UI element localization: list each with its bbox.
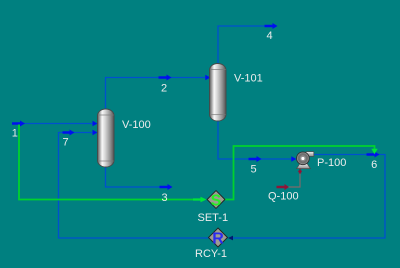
stream 7 inlet arrowhead at V-100 bbox=[93, 130, 98, 136]
svg-text:S: S bbox=[211, 192, 222, 209]
stream 5 bold arrow bbox=[249, 156, 262, 162]
stream 7 bold arrow bbox=[63, 130, 75, 136]
Q-100 arrowhead into P-100 bbox=[298, 168, 302, 173]
vessel V-100 bbox=[98, 109, 115, 167]
stream 6 arrowhead into RCY-1 bbox=[228, 236, 233, 241]
wire stream 4 bbox=[218, 26, 265, 63]
wire stream 5 bbox=[218, 120, 292, 159]
wire stream 2 bbox=[106, 78, 210, 111]
svg-text:6: 6 bbox=[371, 159, 377, 171]
svg-text:P-100: P-100 bbox=[317, 157, 346, 169]
energy stream Q-100 bold arrow bbox=[277, 184, 290, 190]
svg-text:RCY-1: RCY-1 bbox=[195, 248, 227, 260]
wire stream 1 bbox=[12, 123, 96, 125]
stream 1 bold arrow bbox=[12, 121, 25, 127]
svg-text:Q-100: Q-100 bbox=[268, 191, 299, 203]
svg-text:V-100: V-100 bbox=[122, 119, 151, 131]
pump P-100 bbox=[297, 152, 314, 169]
stream 2 inlet arrowhead at V-101 bbox=[205, 75, 210, 81]
recycle op RCY-1 bbox=[209, 228, 228, 247]
stream 5 suction arrowhead at P-100 bbox=[291, 156, 296, 162]
wire Q-100 connector bbox=[289, 173, 301, 188]
stream 2 bold arrow bbox=[159, 75, 172, 81]
stream 3 bold arrow bbox=[160, 184, 173, 190]
signal wire from SET-1 to stream 6 bbox=[225, 146, 375, 200]
svg-text:R: R bbox=[212, 230, 224, 247]
wire stream 3 bbox=[106, 166, 161, 187]
signal arrow onto stream 6 bbox=[371, 149, 377, 155]
svg-text:3: 3 bbox=[161, 192, 167, 204]
svg-text:2: 2 bbox=[161, 83, 167, 95]
svg-text:V-101: V-101 bbox=[234, 73, 263, 85]
stream 1 inlet arrowhead at V-100 bbox=[93, 121, 98, 127]
vessel V-101 bbox=[210, 64, 227, 122]
svg-text:4: 4 bbox=[266, 30, 272, 42]
wire stream 6 bbox=[229, 155, 386, 239]
stream 4 bold arrow bbox=[265, 23, 278, 29]
stream 6 bold arrow bbox=[367, 152, 380, 158]
svg-text:SET-1: SET-1 bbox=[198, 212, 229, 224]
signal arrow into SET-1 bbox=[193, 197, 207, 203]
logical op SET-1 bbox=[207, 191, 225, 210]
signal wire from stream 1 to SET-1 bbox=[19, 125, 194, 200]
svg-text:5: 5 bbox=[250, 164, 256, 176]
wire stream 7 (recycle return) bbox=[59, 133, 209, 239]
svg-text:1: 1 bbox=[12, 127, 18, 139]
svg-text:7: 7 bbox=[62, 137, 68, 149]
